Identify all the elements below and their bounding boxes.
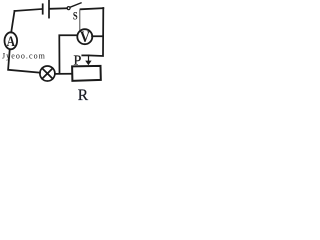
svg-text:A: A [7,34,16,50]
svg-text:S: S [73,11,78,23]
svg-text:P: P [74,54,82,69]
svg-text:R: R [78,87,89,102]
svg-text:V: V [80,29,91,46]
